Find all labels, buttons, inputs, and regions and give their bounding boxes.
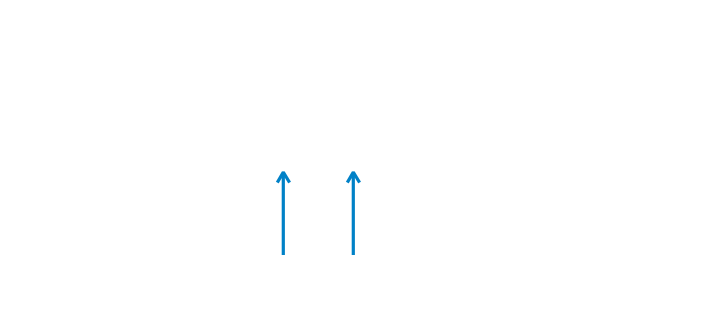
arrow 2 head [347,172,359,182]
arrow 1 shaft [282,173,285,255]
arrow 2 shaft [352,173,355,255]
arrow 1 head [277,172,289,182]
